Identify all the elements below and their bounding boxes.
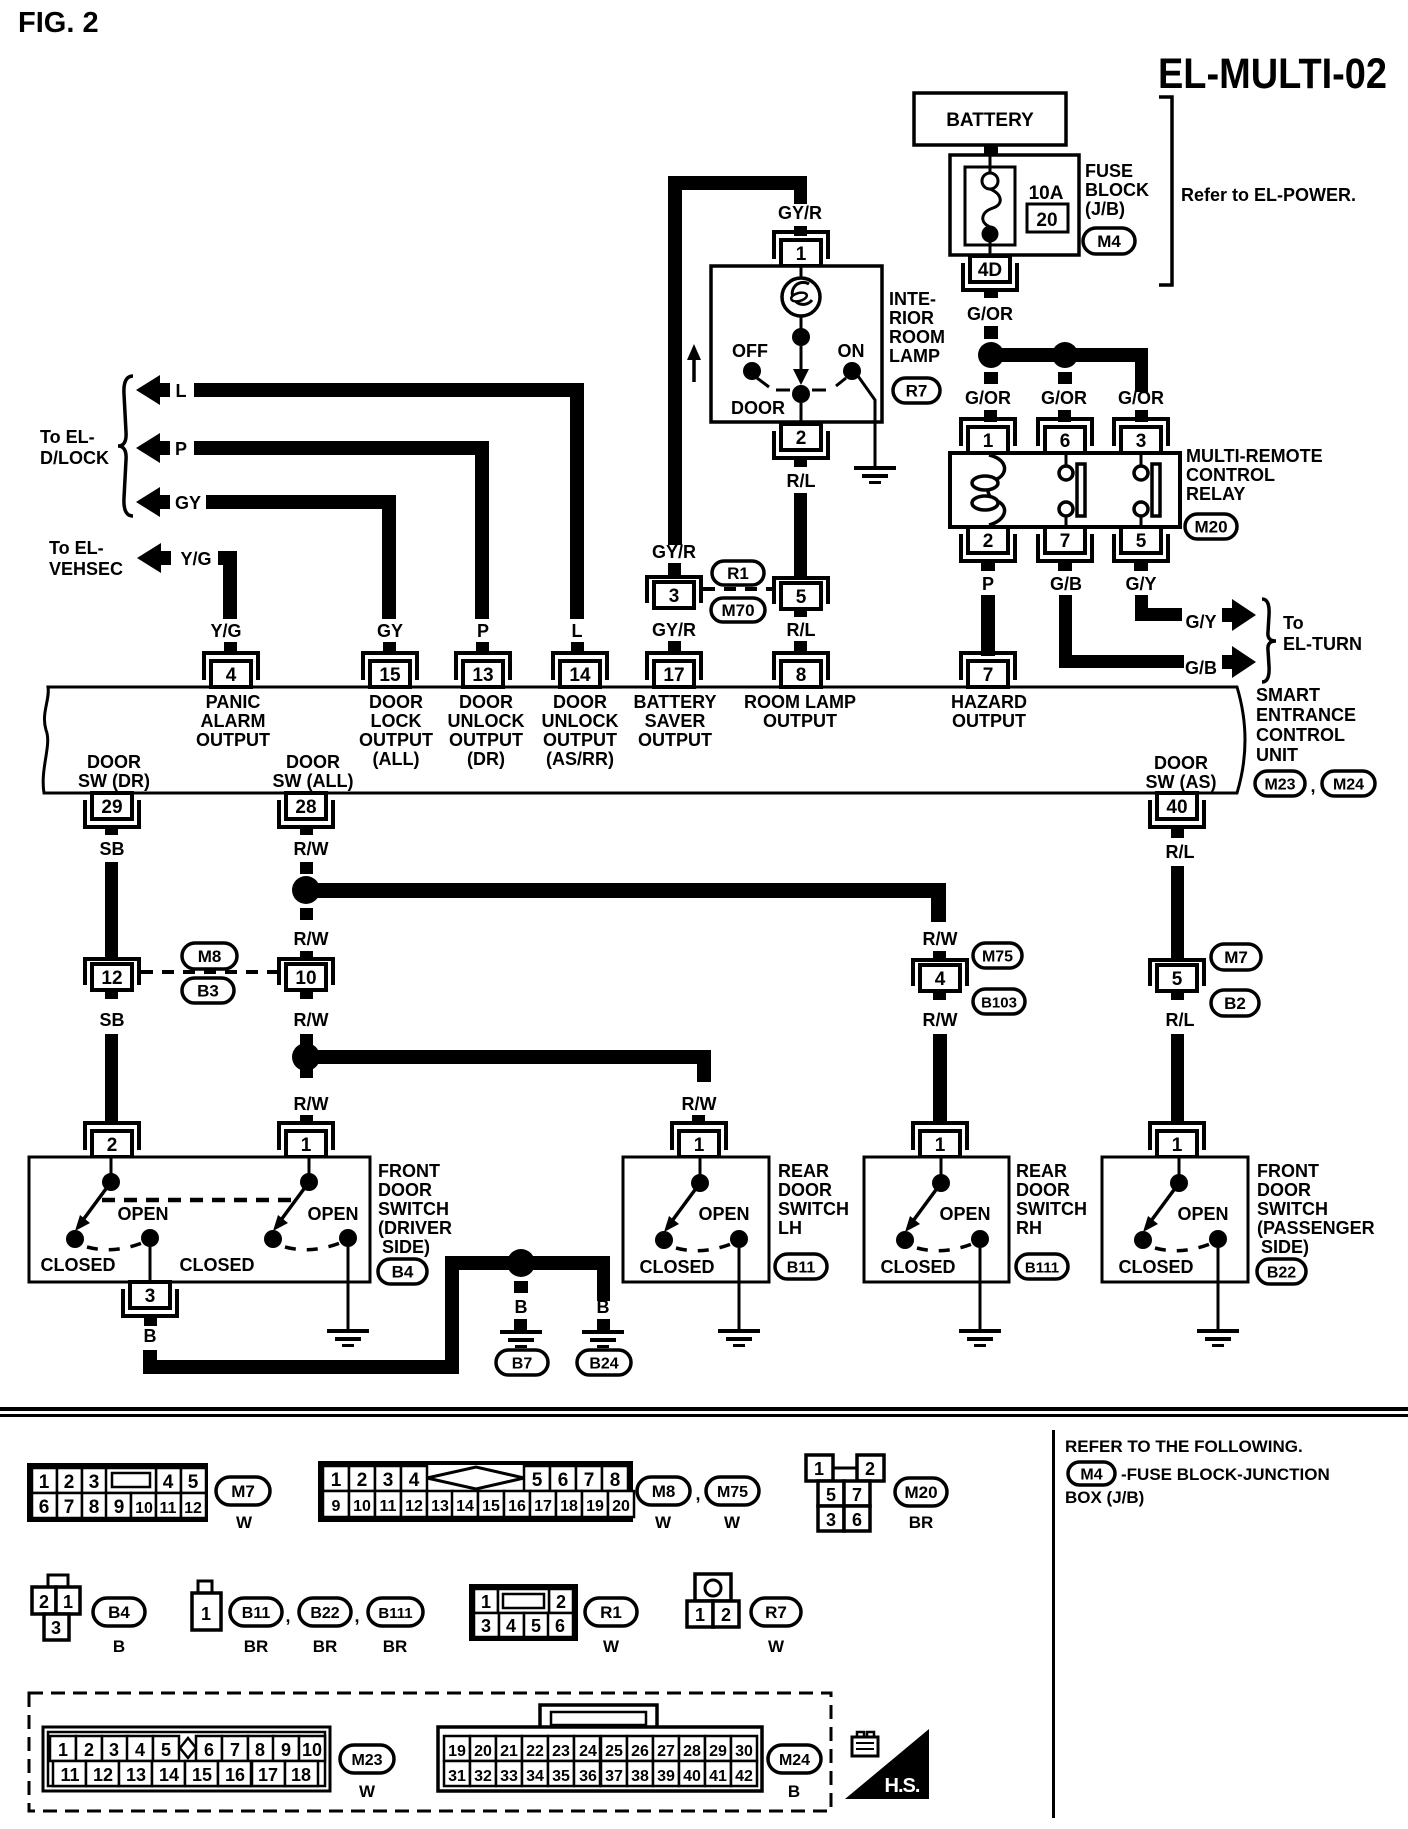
svg-text:REAR: REAR bbox=[778, 1161, 829, 1181]
wire from open contact to ground bbox=[347, 1247, 350, 1329]
svg-text:2: 2 bbox=[865, 1459, 875, 1479]
fuse 10A bbox=[989, 155, 992, 174]
svg-text:OPEN: OPEN bbox=[1177, 1204, 1228, 1224]
connector pin 3 of relay bbox=[1114, 419, 1168, 446]
wire R/L bbox=[1171, 866, 1184, 960]
svg-text:1: 1 bbox=[481, 1592, 491, 1612]
node junction B bbox=[507, 1249, 535, 1277]
svg-text:37: 37 bbox=[605, 1768, 623, 1785]
ground of driver switch bbox=[327, 1329, 369, 1333]
switch passenger bbox=[1178, 1158, 1181, 1183]
svg-text:4: 4 bbox=[135, 1740, 145, 1760]
svg-text:B4: B4 bbox=[392, 1263, 414, 1282]
svg-text:SW (AS): SW (AS) bbox=[1146, 772, 1217, 792]
svg-text:R7: R7 bbox=[765, 1603, 787, 1622]
smart entrance control unit M23 M24 bbox=[43, 687, 1245, 793]
connector M75 label bbox=[706, 1477, 759, 1505]
svg-text:G/OR: G/OR bbox=[1041, 388, 1087, 408]
svg-text:B: B bbox=[515, 1297, 528, 1317]
svg-text:2: 2 bbox=[64, 1472, 75, 1493]
svg-text:R/L: R/L bbox=[787, 620, 816, 640]
svg-text:42: 42 bbox=[735, 1768, 753, 1785]
wire G/OR to relay pin 1 bbox=[984, 372, 998, 384]
svg-text:7: 7 bbox=[1060, 531, 1071, 552]
svg-text:REFER TO THE FOLLOWING.: REFER TO THE FOLLOWING. bbox=[1065, 1437, 1303, 1456]
wire battery to fuse block bbox=[984, 145, 998, 156]
arrow up battery saver bbox=[692, 358, 696, 382]
wire to relay pin 3 bbox=[1065, 348, 1148, 362]
svg-text:5: 5 bbox=[796, 587, 807, 608]
dashed link connector 12 to 10 bbox=[141, 970, 279, 974]
svg-text:DOOR: DOOR bbox=[459, 692, 513, 712]
connector pin 1 of rear door switch LH bbox=[672, 1123, 726, 1150]
svg-text:SIDE): SIDE) bbox=[1261, 1237, 1309, 1257]
ground of LH switch bbox=[718, 1329, 760, 1333]
svg-text:P: P bbox=[477, 621, 489, 641]
svg-text:OUTPUT: OUTPUT bbox=[763, 711, 837, 731]
svg-text:11: 11 bbox=[60, 1765, 79, 1785]
svg-text:17: 17 bbox=[258, 1765, 278, 1785]
svg-text:5: 5 bbox=[1136, 531, 1147, 552]
connector R1 label bbox=[585, 1598, 637, 1626]
svg-text:10A: 10A bbox=[1029, 183, 1064, 204]
connector pin 8 room lamp output bbox=[774, 653, 828, 680]
svg-text:OFF: OFF bbox=[732, 341, 768, 361]
connector pin 1 of rear door switch RH bbox=[913, 1123, 967, 1150]
svg-text:EL-MULTI-02: EL-MULTI-02 bbox=[1158, 50, 1387, 98]
svg-text:19: 19 bbox=[448, 1743, 466, 1760]
connector M20 bbox=[1185, 514, 1237, 539]
switch rotor dot bbox=[792, 385, 810, 403]
svg-text:13: 13 bbox=[472, 665, 493, 686]
connector 5 R1/M70 bbox=[774, 578, 828, 604]
svg-text:DOOR: DOOR bbox=[378, 1180, 432, 1200]
svg-text:DOOR: DOOR bbox=[1154, 753, 1208, 773]
svg-text:3: 3 bbox=[1136, 431, 1147, 452]
svg-text:B22: B22 bbox=[310, 1605, 339, 1622]
svg-text:16: 16 bbox=[508, 1498, 526, 1515]
svg-text:20: 20 bbox=[612, 1498, 630, 1515]
switch RH bbox=[940, 1158, 943, 1183]
svg-text:M23: M23 bbox=[351, 1752, 382, 1769]
connector R7 pin grid bbox=[687, 1574, 739, 1627]
svg-text:2: 2 bbox=[556, 1592, 566, 1612]
svg-text:5: 5 bbox=[532, 1470, 543, 1491]
connector B4 bbox=[378, 1259, 427, 1284]
svg-text:3: 3 bbox=[51, 1618, 61, 1638]
svg-text:34: 34 bbox=[526, 1768, 544, 1785]
wire R/W to connector 4 M75 bbox=[306, 883, 946, 898]
svg-text:B2: B2 bbox=[1224, 994, 1246, 1013]
svg-text:9: 9 bbox=[114, 1497, 125, 1518]
svg-text:W: W bbox=[359, 1782, 376, 1801]
connector M75 bbox=[973, 943, 1022, 968]
wire to ground LH bbox=[738, 1248, 741, 1329]
connector B24 bbox=[577, 1350, 631, 1375]
svg-text:D/LOCK: D/LOCK bbox=[40, 448, 109, 468]
svg-text:40: 40 bbox=[683, 1768, 701, 1785]
svg-text:3: 3 bbox=[383, 1470, 394, 1491]
svg-text:ALARM: ALARM bbox=[201, 711, 266, 731]
wire R/L to room lamp output bbox=[794, 609, 807, 617]
ground B24 bbox=[582, 1330, 624, 1334]
connector B7 bbox=[496, 1350, 548, 1375]
connector B22 label bbox=[299, 1598, 351, 1626]
svg-text:23: 23 bbox=[552, 1743, 570, 1760]
svg-text:4: 4 bbox=[409, 1470, 420, 1491]
wire label GY/R bbox=[668, 642, 681, 654]
svg-text:OPEN: OPEN bbox=[698, 1204, 749, 1224]
connector pin 2 of front door switch driver bbox=[85, 1123, 139, 1150]
svg-text:31: 31 bbox=[448, 1768, 466, 1785]
lamp internal wiring bbox=[800, 316, 803, 330]
connector B103 bbox=[973, 989, 1025, 1014]
svg-text:M8: M8 bbox=[652, 1482, 676, 1501]
svg-text:CLOSED: CLOSED bbox=[639, 1257, 714, 1277]
svg-text:21: 21 bbox=[500, 1743, 518, 1760]
svg-text:4D: 4D bbox=[978, 260, 1002, 281]
wire B right branch bbox=[597, 1256, 610, 1301]
svg-text:1: 1 bbox=[694, 1135, 705, 1156]
svg-text:M20: M20 bbox=[904, 1483, 937, 1502]
connector pin 15 door lock bbox=[363, 653, 417, 680]
svg-text:To EL-: To EL- bbox=[49, 538, 104, 558]
connector M24 bbox=[1322, 771, 1375, 796]
wire SB lower bbox=[105, 1034, 118, 1124]
svg-text:P: P bbox=[982, 574, 994, 594]
connector M24 pin grid bbox=[438, 1705, 762, 1791]
svg-text:1: 1 bbox=[1172, 1135, 1183, 1156]
svg-text:9: 9 bbox=[281, 1740, 291, 1760]
svg-text:CLOSED: CLOSED bbox=[1118, 1257, 1193, 1277]
svg-text:6: 6 bbox=[852, 1510, 862, 1530]
svg-text:ENTRANCE: ENTRANCE bbox=[1256, 705, 1356, 725]
wire B to ground junction bbox=[143, 1350, 157, 1374]
svg-text:LOCK: LOCK bbox=[371, 711, 422, 731]
svg-text:BLOCK: BLOCK bbox=[1085, 180, 1149, 200]
connector M7 bbox=[1211, 944, 1261, 970]
svg-text:SB: SB bbox=[99, 1010, 124, 1030]
svg-text:G/Y: G/Y bbox=[1185, 612, 1216, 632]
svg-text:2: 2 bbox=[357, 1470, 368, 1491]
svg-text:G/OR: G/OR bbox=[965, 388, 1011, 408]
wire R/L stub below pin 40 bbox=[1171, 829, 1184, 838]
connector R7 bbox=[893, 378, 940, 403]
svg-text:32: 32 bbox=[474, 1768, 492, 1785]
interior room lamp R7 bbox=[711, 266, 882, 422]
vertical divider bbox=[1052, 1430, 1055, 1818]
svg-text:PANIC: PANIC bbox=[206, 692, 261, 712]
svg-text:2: 2 bbox=[39, 1592, 49, 1612]
svg-text:14: 14 bbox=[456, 1498, 474, 1515]
svg-text:40: 40 bbox=[1166, 797, 1187, 818]
svg-text:M75: M75 bbox=[717, 1484, 748, 1501]
connector pin 29 door sw DR bbox=[85, 800, 139, 827]
svg-text:FRONT: FRONT bbox=[1257, 1161, 1319, 1181]
connector 1-pin B11/B22/B111 grid bbox=[192, 1581, 221, 1630]
battery bbox=[914, 93, 1066, 145]
connector pin 6 of relay bbox=[1038, 419, 1092, 446]
svg-text:Y/G: Y/G bbox=[210, 621, 241, 641]
svg-text:RIOR: RIOR bbox=[889, 308, 934, 328]
svg-text:3: 3 bbox=[145, 1286, 156, 1307]
svg-text:1: 1 bbox=[983, 431, 994, 452]
svg-text:12: 12 bbox=[101, 968, 122, 989]
svg-text:OUTPUT: OUTPUT bbox=[449, 730, 523, 750]
svg-text:CONTROL: CONTROL bbox=[1256, 725, 1345, 745]
svg-text:R/W: R/W bbox=[682, 1094, 717, 1114]
relay coil bbox=[988, 455, 1005, 525]
svg-text:8: 8 bbox=[89, 1497, 100, 1518]
svg-text:3: 3 bbox=[481, 1616, 491, 1636]
svg-text:UNLOCK: UNLOCK bbox=[542, 711, 619, 731]
svg-text:DOOR: DOOR bbox=[87, 752, 141, 772]
svg-text:B103: B103 bbox=[981, 995, 1017, 1012]
svg-text:BR: BR bbox=[909, 1513, 934, 1532]
svg-text:3: 3 bbox=[109, 1740, 119, 1760]
svg-text:R/W: R/W bbox=[923, 929, 958, 949]
svg-text:BR: BR bbox=[313, 1637, 338, 1656]
svg-text:G/OR: G/OR bbox=[967, 304, 1013, 324]
connector pin 7 of relay bbox=[1038, 534, 1092, 561]
svg-text:2: 2 bbox=[983, 531, 994, 552]
svg-text:R/W: R/W bbox=[294, 1094, 329, 1114]
arrow To EL-D/LOCK L bbox=[136, 375, 160, 405]
svg-text:ROOM LAMP: ROOM LAMP bbox=[744, 692, 856, 712]
connector M7 label bbox=[216, 1477, 270, 1505]
svg-text:FIG. 2: FIG. 2 bbox=[18, 7, 99, 39]
connector M23 bbox=[1255, 771, 1305, 796]
svg-text:SB: SB bbox=[99, 839, 124, 859]
relay contact pins 6-7 bbox=[1065, 453, 1068, 466]
arrow To EL-D/LOCK GY bbox=[136, 487, 160, 517]
svg-text:P: P bbox=[175, 439, 187, 459]
svg-text:10: 10 bbox=[302, 1740, 322, 1760]
svg-text:10: 10 bbox=[135, 1500, 153, 1517]
svg-text:4: 4 bbox=[226, 665, 237, 686]
svg-text:41: 41 bbox=[709, 1768, 727, 1785]
svg-text:8: 8 bbox=[610, 1470, 621, 1491]
dashed box bbox=[29, 1693, 831, 1811]
svg-text:1: 1 bbox=[796, 244, 807, 265]
svg-text:19: 19 bbox=[586, 1498, 604, 1515]
svg-text:INTE-: INTE- bbox=[889, 289, 936, 309]
svg-text:9: 9 bbox=[332, 1498, 341, 1515]
svg-text:M70: M70 bbox=[721, 601, 754, 620]
wire R/W to rear door switch RH bbox=[933, 992, 946, 1000]
ground of passenger switch bbox=[1197, 1329, 1239, 1333]
ground of room lamp bbox=[874, 422, 877, 466]
connector pin 14 door unlock AS/RR bbox=[553, 653, 607, 680]
svg-text:R/W: R/W bbox=[923, 1010, 958, 1030]
switch driver left bbox=[110, 1157, 113, 1182]
svg-text:20: 20 bbox=[474, 1743, 492, 1760]
wire R/W dashes to pin 1 driver bbox=[300, 1066, 313, 1078]
switch driver right bbox=[308, 1157, 311, 1182]
connector B4 pin grid bbox=[32, 1575, 80, 1640]
svg-text:14: 14 bbox=[159, 1765, 179, 1785]
arrow to EL-TURN G/B bbox=[1232, 646, 1256, 678]
connector B111 bbox=[1016, 1254, 1068, 1279]
connector 3 R1/M70 bbox=[647, 577, 701, 603]
connector pin 5 of relay bbox=[1114, 534, 1168, 561]
wire R/W to rear door switch LH bbox=[306, 1050, 711, 1064]
svg-text:G/OR: G/OR bbox=[1118, 388, 1164, 408]
svg-text:1: 1 bbox=[201, 1604, 211, 1624]
connector 4D bbox=[963, 263, 1017, 290]
svg-text:B4: B4 bbox=[108, 1603, 130, 1622]
svg-text:Refer to EL-POWER.: Refer to EL-POWER. bbox=[1181, 185, 1356, 205]
svg-text:W: W bbox=[768, 1637, 785, 1656]
lamp bulb bbox=[800, 266, 803, 280]
switch LH bbox=[699, 1158, 702, 1183]
connector M8 M75 pin grid bbox=[320, 1463, 634, 1520]
connector B2 bbox=[1211, 990, 1259, 1016]
svg-text:(PASSENGER: (PASSENGER bbox=[1257, 1218, 1375, 1238]
svg-text:5: 5 bbox=[161, 1740, 171, 1760]
node junction R/W lower bbox=[292, 1043, 320, 1071]
svg-text:1: 1 bbox=[63, 1592, 73, 1612]
connector pin 1 of relay bbox=[961, 419, 1015, 446]
wire G/OR to relay pin 6 bbox=[1058, 372, 1072, 384]
svg-text:R/L: R/L bbox=[1166, 842, 1195, 862]
svg-text:W: W bbox=[724, 1513, 741, 1532]
bracket refer to EL-POWER bbox=[1159, 97, 1172, 285]
wire open contact left to pin 3 bbox=[149, 1247, 152, 1282]
svg-text:R/W: R/W bbox=[294, 929, 329, 949]
svg-text:18: 18 bbox=[560, 1498, 578, 1515]
svg-text:SWITCH: SWITCH bbox=[778, 1199, 849, 1219]
connector M7 pin grid bbox=[29, 1465, 206, 1520]
svg-text:BOX (J/B): BOX (J/B) bbox=[1065, 1488, 1144, 1507]
svg-text:,: , bbox=[695, 1484, 700, 1504]
connector 5 M7/B2 bbox=[1150, 960, 1204, 986]
connector pin 2 of room lamp bbox=[774, 431, 828, 458]
svg-text:BR: BR bbox=[383, 1637, 408, 1656]
connector B22 bbox=[1257, 1259, 1306, 1284]
fuse block (J/B) M4 bbox=[950, 155, 1079, 255]
svg-text:DOOR: DOOR bbox=[286, 752, 340, 772]
svg-text:6: 6 bbox=[1060, 431, 1071, 452]
connector pin 40 door sw AS bbox=[1150, 800, 1204, 827]
svg-text:20: 20 bbox=[1036, 210, 1057, 231]
brace to EL-TURN bbox=[1262, 599, 1276, 682]
connector pin 1 of room lamp bbox=[774, 232, 828, 259]
connector M23 label bbox=[340, 1745, 394, 1773]
svg-text:M75: M75 bbox=[982, 949, 1013, 966]
svg-text:OUTPUT: OUTPUT bbox=[952, 711, 1026, 731]
svg-text:BATTERY: BATTERY bbox=[634, 692, 717, 712]
svg-text:VEHSEC: VEHSEC bbox=[49, 559, 123, 579]
svg-text:G/B: G/B bbox=[1050, 574, 1082, 594]
wire B stub bbox=[144, 1316, 157, 1326]
svg-text:39: 39 bbox=[657, 1768, 675, 1785]
node junction G/OR right bbox=[1052, 342, 1078, 368]
svg-text:15: 15 bbox=[379, 665, 401, 686]
svg-text:B11: B11 bbox=[242, 1605, 271, 1622]
connector M20 pin grid bbox=[806, 1455, 884, 1531]
svg-text:25: 25 bbox=[605, 1743, 623, 1760]
svg-text:38: 38 bbox=[631, 1768, 649, 1785]
connector pin 28 door sw ALL bbox=[279, 800, 333, 827]
connector pin 13 door unlock DR bbox=[456, 653, 510, 680]
svg-text:29: 29 bbox=[709, 1743, 727, 1760]
wire L bbox=[194, 383, 584, 397]
svg-text:DOOR: DOOR bbox=[778, 1180, 832, 1200]
connector B11 bbox=[775, 1254, 827, 1279]
svg-text:14: 14 bbox=[569, 665, 591, 686]
svg-text:7: 7 bbox=[983, 665, 994, 686]
svg-text:B7: B7 bbox=[512, 1356, 533, 1373]
dashed link connector 3 to 5 bbox=[703, 587, 774, 591]
front door switch passenger side B22 bbox=[1102, 1157, 1248, 1282]
svg-text:R7: R7 bbox=[906, 382, 928, 401]
svg-text:GY/R: GY/R bbox=[652, 620, 696, 640]
svg-text:R/L: R/L bbox=[787, 471, 816, 491]
svg-text:(DRIVER: (DRIVER bbox=[378, 1218, 452, 1238]
H.S. logo bbox=[845, 1729, 929, 1799]
svg-text:17: 17 bbox=[534, 1498, 552, 1515]
svg-text:L: L bbox=[572, 621, 583, 641]
svg-text:LH: LH bbox=[778, 1218, 802, 1238]
svg-text:OUTPUT: OUTPUT bbox=[196, 730, 270, 750]
connector 10 M8/B3 bbox=[279, 959, 333, 985]
svg-text:EL-TURN: EL-TURN bbox=[1283, 634, 1362, 654]
svg-text:GY/R: GY/R bbox=[652, 542, 696, 562]
svg-text:(DR): (DR) bbox=[467, 749, 505, 769]
svg-text:7: 7 bbox=[230, 1740, 240, 1760]
wire R/W stub below pin 28 bbox=[300, 827, 313, 835]
svg-text:OPEN: OPEN bbox=[307, 1204, 358, 1224]
svg-text:SWITCH: SWITCH bbox=[1016, 1199, 1087, 1219]
svg-text:B: B bbox=[597, 1297, 610, 1317]
svg-text:UNIT: UNIT bbox=[1256, 745, 1298, 765]
svg-text:M20: M20 bbox=[1194, 518, 1227, 537]
svg-text:3: 3 bbox=[669, 586, 680, 607]
svg-text:SWITCH: SWITCH bbox=[378, 1199, 449, 1219]
svg-text:30: 30 bbox=[735, 1743, 753, 1760]
svg-text:R/L: R/L bbox=[1166, 1010, 1195, 1030]
svg-text:4: 4 bbox=[163, 1472, 174, 1493]
connector 4 M75/B103 bbox=[913, 960, 967, 986]
connector M4 note bbox=[1068, 1462, 1115, 1485]
svg-text:OUTPUT: OUTPUT bbox=[543, 730, 617, 750]
svg-text:SWITCH: SWITCH bbox=[1257, 1199, 1328, 1219]
wire stubs below relay bbox=[981, 561, 995, 571]
svg-text:To EL-: To EL- bbox=[40, 427, 95, 447]
connector B4 label bbox=[93, 1598, 145, 1626]
svg-text:28: 28 bbox=[295, 797, 316, 818]
svg-text:CLOSED: CLOSED bbox=[40, 1255, 115, 1275]
node junction G/OR left bbox=[978, 342, 1004, 368]
svg-text:M7: M7 bbox=[231, 1482, 255, 1501]
svg-text:26: 26 bbox=[631, 1743, 649, 1760]
svg-text:H.S.: H.S. bbox=[885, 1775, 920, 1797]
svg-text:1: 1 bbox=[58, 1740, 68, 1760]
svg-text:GY: GY bbox=[175, 493, 201, 513]
svg-text:M23: M23 bbox=[1264, 777, 1295, 794]
svg-text:10: 10 bbox=[353, 1498, 371, 1515]
svg-text:7: 7 bbox=[584, 1470, 595, 1491]
connector pin 3 of driver switch bbox=[123, 1289, 177, 1316]
svg-text:28: 28 bbox=[683, 1743, 701, 1760]
svg-text:OUTPUT: OUTPUT bbox=[638, 730, 712, 750]
connector B3 bbox=[182, 978, 234, 1003]
svg-text:1: 1 bbox=[695, 1605, 705, 1625]
svg-text:RELAY: RELAY bbox=[1186, 484, 1245, 504]
rear door switch LH B11 bbox=[623, 1157, 769, 1282]
node junction R/W upper bbox=[292, 876, 320, 904]
